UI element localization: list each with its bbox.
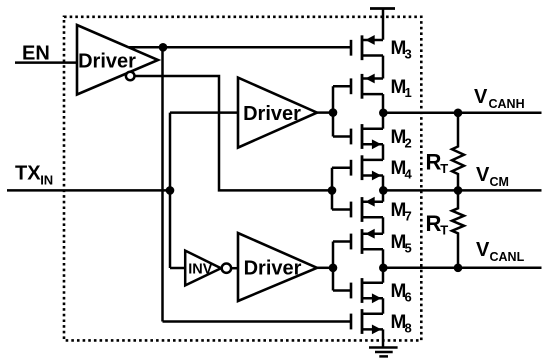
wire driver U1 inverted output to node B: [135, 76, 332, 190]
transistor M3: [351, 35, 383, 60]
dotted boundary box: [64, 17, 421, 341]
wire M1 M2 gate fork: [333, 86, 351, 136]
svg-text:Driver: Driver: [78, 50, 136, 72]
wire INV U4 output to driver U3: [232, 267, 239, 270]
svg-text:7: 7: [405, 208, 412, 223]
driver U3: [238, 233, 317, 301]
svg-text:Driver: Driver: [244, 257, 302, 279]
svg-text:T: T: [440, 222, 448, 237]
wire M5 M6 gate fork: [333, 242, 351, 291]
wire M1 to M2 through VCANH node: [382, 94, 385, 129]
wire VDD to M3 drain: [382, 9, 385, 40]
wire M7 to M5: [382, 217, 385, 233]
svg-text:6: 6: [405, 289, 412, 304]
svg-text:R: R: [426, 211, 442, 236]
svg-text:V: V: [476, 164, 490, 186]
wire driver U1 top output to M3 gate: [128, 46, 350, 49]
driver U1 (EN Driver): [77, 25, 158, 95]
wire driver U2 output: [317, 111, 333, 114]
wire driver U3 output: [317, 267, 333, 270]
node junction driver U3 out: [329, 264, 338, 273]
transistor M1: [351, 74, 383, 99]
wire EN branch vertical down: [161, 47, 164, 321]
wire M6 to M8: [382, 298, 385, 313]
svg-text:V: V: [476, 239, 490, 261]
inverting bubble U1: [126, 72, 135, 81]
transistor M4: [351, 155, 383, 180]
wire M8 to ground: [382, 329, 385, 347]
svg-text:4: 4: [405, 167, 413, 182]
wire M2 to M4: [382, 144, 385, 160]
wire VCANL rail: [383, 267, 542, 270]
wire driver U2 input: [170, 111, 238, 114]
node junction VCM tap: [454, 186, 463, 195]
wire M3 to M1: [382, 56, 385, 79]
svg-text:5: 5: [405, 240, 412, 255]
wire M4 to M7 through VCM node: [382, 176, 385, 202]
wire TX_IN branch vertical: [169, 113, 172, 268]
node junction RT1 top: [454, 109, 463, 118]
power supply rail VDD: [370, 7, 395, 10]
node junction driver U2 out: [329, 108, 338, 117]
svg-text:INV: INV: [188, 262, 213, 278]
svg-text:CANL: CANL: [490, 250, 525, 264]
svg-text:8: 8: [405, 320, 412, 335]
wire TX_IN input: [7, 189, 170, 192]
node junction TX_IN: [166, 186, 175, 195]
node junction M4 M7 gates: [328, 186, 337, 195]
svg-text:R: R: [426, 149, 442, 174]
wire EN input: [15, 61, 77, 64]
node junction VCM drain: [379, 186, 388, 195]
svg-text:Driver: Driver: [243, 103, 301, 125]
resistor RT2: [452, 190, 464, 267]
node junction VCANL tap: [454, 264, 463, 273]
svg-text:3: 3: [405, 47, 412, 62]
svg-text:2: 2: [405, 135, 412, 150]
svg-text:CM: CM: [490, 175, 509, 189]
transistor M2: [351, 124, 383, 149]
svg-text:EN: EN: [22, 43, 50, 65]
ground: [369, 348, 398, 357]
svg-text:IN: IN: [40, 172, 53, 187]
svg-text:1: 1: [405, 85, 412, 100]
wire VCM rail: [383, 189, 542, 192]
node junction VCANL drain: [379, 264, 388, 273]
transistor M5: [351, 229, 383, 254]
inverter U4 (INV): [185, 251, 221, 286]
driver U2: [238, 78, 317, 148]
svg-text:T: T: [440, 161, 448, 176]
wire M8 gate lead: [163, 320, 351, 323]
resistor RT1: [452, 113, 464, 191]
wire M5 to M6 through VCANL node: [382, 249, 385, 282]
inverting bubble U4: [222, 264, 231, 273]
svg-text:V: V: [474, 86, 488, 108]
wire VCANH rail: [383, 112, 542, 115]
transistor M7: [351, 197, 383, 222]
node junction VCANH drain: [379, 109, 388, 118]
wire M4 M7 gate fork: [332, 168, 351, 210]
svg-text:CANH: CANH: [489, 97, 525, 111]
wire INV U4 input: [170, 267, 186, 270]
transistor M6: [351, 278, 383, 303]
transistor M8: [351, 309, 383, 334]
svg-text:TX: TX: [15, 163, 41, 185]
node junction driver U1 out: [159, 43, 168, 52]
